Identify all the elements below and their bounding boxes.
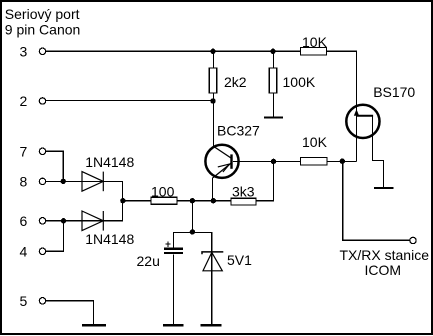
pin 4 terminal	[39, 248, 45, 254]
wire pin2 to node	[46, 100, 213, 102]
svg-text:6: 6	[20, 213, 28, 229]
svg-text:ICOM: ICOM	[365, 262, 402, 278]
wire R 10K mid to BS170 source	[327, 160, 357, 162]
wire lower branch horizontal	[173, 232, 211, 234]
pin 8 terminal	[39, 178, 45, 184]
pin 3 terminal	[39, 48, 45, 54]
wire 2k2 bottom to BC327 collector	[213, 93, 215, 148]
ground under zener	[201, 324, 222, 327]
pin 5 terminal	[39, 298, 45, 304]
junction dot node pin6/pin4	[61, 218, 66, 223]
wire BC327 emitter down	[212, 178, 214, 201]
wire node A to R 100	[123, 200, 151, 202]
wire D1 cathode to node A	[103, 181, 122, 200]
pin 2 terminal	[39, 98, 45, 104]
svg-text:22u: 22u	[137, 253, 160, 269]
svg-text:9 pin Canon: 9 pin Canon	[5, 21, 81, 37]
wire R 100 to R 3k3	[177, 200, 231, 202]
resistor 3k3	[231, 183, 256, 205]
transistor Q1 BC327 (PNP)	[205, 122, 260, 178]
svg-text:10K: 10K	[302, 134, 328, 150]
svg-text:7: 7	[20, 143, 28, 159]
wire node to TX/RX terminal	[343, 161, 410, 240]
svg-text:5: 5	[20, 293, 28, 309]
junction dot node source/10K	[340, 159, 345, 164]
wire pin5 to ground	[46, 301, 93, 324]
resistor 100	[151, 184, 177, 205]
junction dot node 2k2 top	[210, 49, 215, 54]
wire pin8 to D1 anode	[46, 180, 103, 182]
wire zener lead to ground	[211, 252, 213, 324]
resistor 10K top	[301, 34, 328, 55]
svg-text:8: 8	[20, 174, 28, 190]
wire cap lead to ground	[172, 254, 174, 324]
junction dot node pin2/2k2	[210, 98, 215, 103]
ground at BS170	[374, 187, 394, 189]
resistor 2k2	[209, 68, 246, 93]
junction dot node cap/zener	[190, 229, 195, 234]
svg-text:100: 100	[151, 184, 175, 200]
svg-text:Seriový port: Seriový port	[5, 6, 80, 22]
junction dot node base/3k3	[271, 159, 276, 164]
ground under pin5	[82, 324, 106, 327]
junction dot node emitter	[211, 198, 216, 203]
wire 100K bottom to ground	[273, 93, 275, 117]
junction dot node pin7/pin8	[61, 179, 66, 184]
pin 7 terminal	[39, 148, 45, 154]
svg-text:5V1: 5V1	[227, 252, 252, 268]
svg-text:3: 3	[20, 43, 28, 59]
wire D2 cathode to node A	[103, 201, 122, 221]
wire pin4 up to pin6 node	[46, 221, 63, 252]
junction dot node cap branch	[190, 198, 195, 203]
diode D2 1N4148	[82, 211, 134, 247]
junction dot node A diodes	[120, 198, 125, 203]
capacitor 22u	[137, 241, 184, 268]
wire cap branch down	[191, 201, 193, 232]
wire pin7 down to pin8 node	[46, 151, 63, 181]
svg-text:2k2: 2k2	[224, 74, 247, 90]
transistor Q2 BS170 (FET)	[346, 84, 415, 138]
junction dot node 100K top	[270, 49, 275, 54]
svg-text:BC327: BC327	[217, 122, 260, 138]
resistor 100K	[269, 68, 316, 93]
wire BS170 gate to ground	[373, 116, 384, 187]
svg-text:1N4148: 1N4148	[85, 231, 134, 247]
wire zener stub	[211, 232, 213, 252]
svg-text:1N4148: 1N4148	[85, 154, 134, 170]
diode D1 1N4148	[82, 154, 134, 191]
wire pin3 to R 10K top	[46, 50, 300, 52]
svg-text:100K: 100K	[283, 74, 316, 90]
wire BC327 base to R 10K mid	[233, 160, 301, 162]
TX/RX terminal	[410, 237, 416, 243]
resistor 10K mid	[301, 134, 328, 165]
svg-text:10K: 10K	[302, 34, 328, 50]
wire R 10K top to BS170 drain	[327, 51, 357, 161]
svg-text:3k3: 3k3	[232, 183, 255, 199]
wire pin6 to D2 anode	[46, 220, 103, 222]
svg-text:TX/RX stanice: TX/RX stanice	[340, 247, 430, 263]
svg-text:4: 4	[20, 243, 28, 259]
zener diode 5V1	[202, 252, 252, 271]
wire 2k2 top stub	[213, 51, 215, 68]
pin 6 terminal	[39, 218, 45, 224]
wire 100K top stub	[273, 51, 275, 68]
wire R 3k3 to base node	[256, 161, 274, 200]
ground under 100K	[264, 117, 283, 119]
svg-text:BS170: BS170	[373, 84, 415, 100]
ground under capacitor	[163, 324, 184, 327]
wire cap top stub	[172, 232, 174, 248]
svg-text:2: 2	[20, 93, 28, 109]
